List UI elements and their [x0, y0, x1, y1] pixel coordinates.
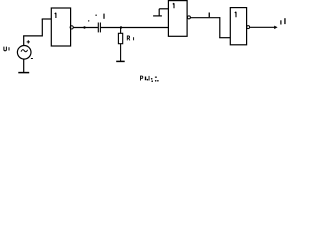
wire step down into gate 3 — [219, 17, 221, 38]
plus polarity mark — [27, 40, 30, 43]
voltage source ui — [17, 46, 31, 60]
label dot above wire — [88, 20, 89, 21]
junction dot — [83, 26, 85, 28]
capacitor label marks — [95, 14, 104, 19]
gate U3 body — [230, 8, 246, 45]
gate U3 label 1 — [235, 12, 236, 17]
wire horizontal to gate 1 step — [23, 35, 42, 37]
gate U1 body — [51, 8, 70, 46]
gate U2 label 1 — [173, 3, 174, 8]
node tick — [209, 13, 210, 18]
junction node — [120, 26, 122, 28]
output arrowhead — [274, 26, 277, 30]
gate U1 label 1 — [55, 13, 56, 18]
gate U1 output bubble — [70, 26, 73, 29]
ground (R1) — [116, 60, 125, 62]
wire source bottom — [23, 59, 25, 72]
wire step bottom into gate 3 — [219, 37, 230, 39]
caption figure number — [141, 76, 143, 80]
wire gate2 to gate3 — [190, 17, 219, 19]
label uo — [280, 18, 285, 24]
output wire — [250, 26, 275, 28]
wire source top — [23, 36, 25, 46]
minus polarity mark — [31, 58, 33, 60]
wire step up — [41, 19, 43, 37]
gate U2 output bubble — [187, 16, 190, 19]
capacitor C1 — [98, 23, 100, 33]
label R1 — [127, 36, 133, 40]
resistor R1 — [118, 28, 122, 62]
gate U2 body — [168, 1, 187, 37]
wire step into gate 1 — [42, 18, 51, 20]
trigger step symbol at gate U2 — [153, 9, 168, 17]
ground (source) — [18, 72, 29, 74]
wire gate1 output to capacitor — [73, 27, 98, 29]
label ui — [4, 47, 9, 51]
wire capacitor to gate 2 — [101, 27, 168, 29]
gate U3 output bubble — [247, 26, 250, 29]
